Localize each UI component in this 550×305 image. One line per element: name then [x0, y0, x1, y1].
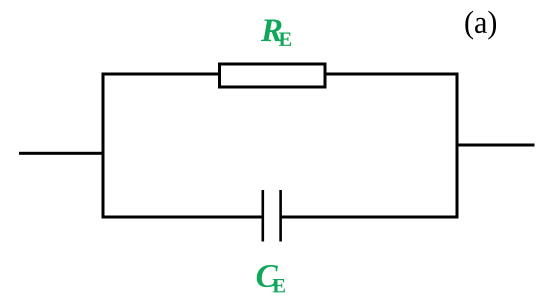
panel label (a) [465, 11, 496, 40]
label R_E (value label for resistor) [261, 19, 291, 45]
wire bottom left segment (to capacitor) [102, 216, 263, 219]
wire right vertical branch [456, 73, 459, 219]
capacitor C_E left plate [262, 190, 265, 242]
wire left vertical branch [102, 73, 105, 219]
label C_E (value label for capacitor) [257, 265, 285, 292]
capacitor C_E right plate [279, 190, 282, 242]
wire left terminal lead [19, 152, 105, 155]
wire right terminal lead [456, 144, 535, 147]
wire top right segment (from resistor) [326, 73, 459, 76]
resistor R_E (rectangle body) [220, 64, 326, 87]
wire bottom right segment (from capacitor) [281, 216, 459, 219]
wire top left segment (to resistor) [102, 73, 220, 76]
